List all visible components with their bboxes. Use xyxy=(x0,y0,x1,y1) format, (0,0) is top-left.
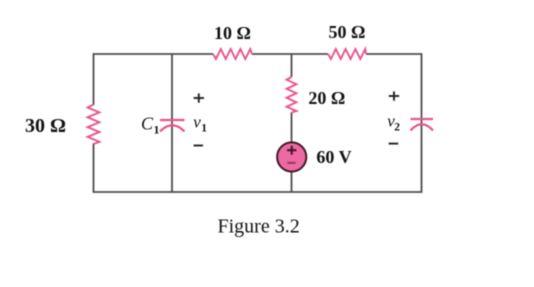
svg-text:50 Ω: 50 Ω xyxy=(329,22,366,42)
wire top-middle segment between R 10ohm and node of middle branch xyxy=(252,53,328,55)
resistor 30ohm (left) xyxy=(88,105,100,145)
wire C1 branch xyxy=(171,54,173,192)
wire left lower segment xyxy=(93,144,95,193)
voltage source 60V xyxy=(277,142,306,171)
label v1 plus xyxy=(194,93,204,102)
wire top-left segment xyxy=(94,53,214,55)
svg-text:C: C xyxy=(141,114,154,134)
wire top-right segment xyxy=(366,53,422,55)
svg-text:30 Ω: 30 Ω xyxy=(25,115,66,137)
wire bottom segment xyxy=(93,191,423,193)
svg-text:Figure 3.2: Figure 3.2 xyxy=(217,216,299,238)
svg-text:1: 1 xyxy=(154,123,160,137)
svg-text:20 Ω: 20 Ω xyxy=(308,88,345,108)
capacitor C1 xyxy=(160,120,185,132)
label v2 minus xyxy=(389,143,399,145)
svg-text:2: 2 xyxy=(394,122,400,134)
svg-text:10 Ω: 10 Ω xyxy=(214,23,251,43)
capacitor v2 (right) xyxy=(411,119,434,131)
resistor 20ohm (middle branch) xyxy=(287,77,297,113)
wire right segment xyxy=(421,53,423,192)
resistor R 50ohm (top right) xyxy=(328,49,366,59)
resistor R 10ohm (top left) xyxy=(213,49,252,59)
label v1 minus xyxy=(194,145,203,147)
label v2 plus xyxy=(389,91,399,100)
wire middle branch lower xyxy=(291,113,293,193)
wire left upper segment xyxy=(93,53,95,105)
svg-text:v: v xyxy=(193,113,201,132)
svg-text:1: 1 xyxy=(201,123,207,135)
svg-text:60 V: 60 V xyxy=(316,147,351,167)
wire middle branch upper xyxy=(291,54,293,77)
